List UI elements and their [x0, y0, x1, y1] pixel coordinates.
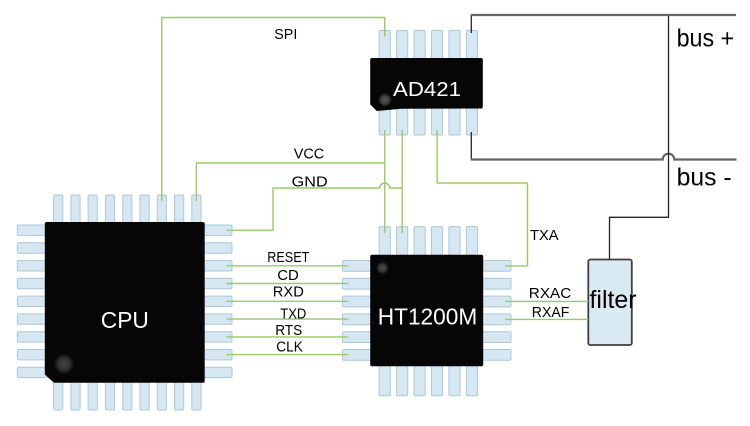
wire VCC: CPU pin to AD421 pin1 net [196, 163, 384, 201]
wire RXAC: HT1200M to filter [505, 300, 588, 302]
bus - rail (hop over filter branch) [471, 154, 737, 160]
filter F1 body [588, 260, 632, 346]
svg-text:SPI: SPI [274, 26, 297, 43]
wire VCC net: AD421 pin1 to HT1200M pin (vertical) [384, 130, 386, 233]
svg-text:TXA: TXA [530, 227, 559, 244]
wire bus+ drop: AD421 top pin6 [470, 15, 472, 33]
svg-text:bus +: bus + [677, 24, 735, 52]
CPU pin-1 dot [54, 354, 74, 374]
svg-text:RXAC: RXAC [529, 285, 572, 302]
AD421 pin-1 dot [378, 93, 391, 106]
HT1200M pin-1 dot [377, 262, 389, 274]
svg-text:RESET: RESET [267, 249, 309, 266]
HT1200M U3 pins [342, 227, 511, 396]
AD421 U2 body [370, 58, 483, 111]
wire RXD: CPU to HT1200M [227, 300, 349, 302]
wire RXAF: HT1200M to filter [505, 318, 588, 320]
wire TXA: AD421 pin4 to HT1200M right pin1 [437, 130, 527, 266]
svg-text:CPU: CPU [101, 307, 149, 333]
svg-text:bus -: bus - [677, 164, 732, 192]
wire TXD: CPU to HT1200M [227, 318, 349, 320]
wire GND: CPU right pin to HT1200M net, hop over VCC [227, 183, 403, 230]
wire RTS: CPU to HT1200M [227, 336, 349, 338]
svg-text:CD: CD [277, 267, 299, 284]
svg-text:CLK: CLK [276, 339, 303, 356]
svg-text:AD421: AD421 [393, 79, 461, 101]
svg-text:HT1200M: HT1200M [378, 303, 478, 329]
svg-text:VCC: VCC [294, 145, 325, 162]
CPU U1 body [45, 222, 205, 383]
wire CLK: CPU to HT1200M [227, 354, 349, 356]
svg-text:RXAF: RXAF [532, 304, 570, 321]
svg-text:TXD: TXD [280, 305, 306, 322]
wire filter branch: bus+ to filter [610, 16, 669, 260]
svg-text:RXD: RXD [273, 284, 304, 301]
wire SPI: CPU pin to AD421 pin 1 [162, 18, 385, 202]
wire RESET: CPU to HT1200M [227, 265, 349, 267]
HT1200M U3 body [370, 255, 483, 366]
wire CD: CPU to HT1200M [227, 283, 349, 285]
wire GND net: AD421 pin2 to HT1200M pin (vertical) [401, 130, 403, 233]
svg-text:GND: GND [292, 174, 328, 191]
wire bus- drop: AD421 bottom pin6 [470, 132, 472, 159]
svg-text:RTS: RTS [275, 322, 302, 339]
svg-text:filter: filter [590, 286, 637, 314]
CPU U1 pins [17, 195, 232, 410]
bus + rail [471, 14, 736, 16]
AD421 U2 pins [379, 30, 477, 135]
